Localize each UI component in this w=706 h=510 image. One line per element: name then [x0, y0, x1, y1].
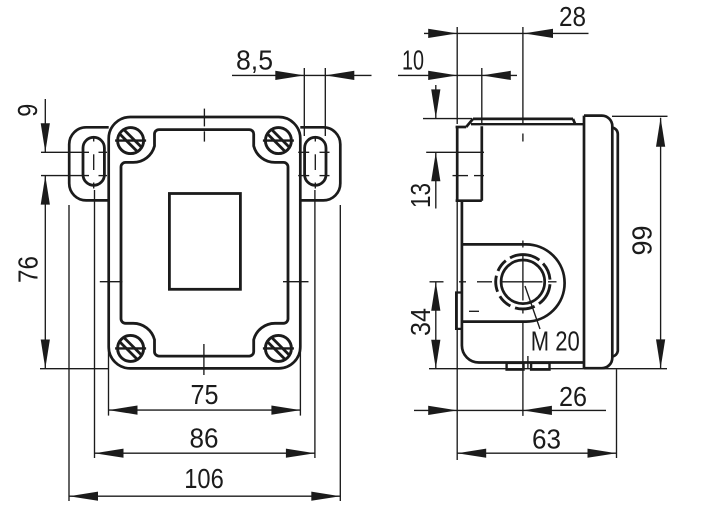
svg-text:106: 106	[184, 463, 224, 494]
svg-text:99: 99	[627, 226, 658, 256]
svg-text:86: 86	[190, 423, 219, 454]
svg-text:34: 34	[405, 308, 436, 336]
svg-text:75: 75	[191, 379, 219, 410]
svg-text:9: 9	[12, 104, 43, 117]
svg-text:26: 26	[559, 381, 587, 412]
svg-text:10: 10	[402, 45, 424, 76]
svg-text:13: 13	[405, 183, 436, 208]
svg-text:63: 63	[532, 424, 561, 455]
svg-text:8,5: 8,5	[236, 45, 273, 76]
svg-text:28: 28	[559, 1, 586, 32]
svg-text:76: 76	[13, 256, 44, 283]
svg-text:M 20: M 20	[531, 326, 580, 357]
